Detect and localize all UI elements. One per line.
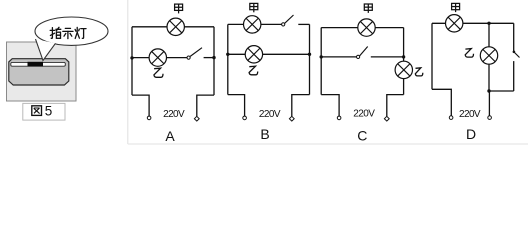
cooker body (pot): [9, 59, 69, 85]
svg-text:220V: 220V: [353, 109, 375, 120]
wire: D middle vertical: [488, 23, 490, 91]
svg-text:5: 5: [45, 104, 53, 119]
appliance photo background square: [7, 42, 77, 101]
wire: B middle branch: [228, 53, 310, 55]
glyph 示: [63, 28, 73, 38]
label 甲 (D): [452, 3, 460, 12]
junction (C right): [402, 55, 405, 58]
label 乙 (A): [154, 68, 163, 77]
indicator lamp black bar: [28, 62, 44, 67]
wire: B bottom-left lead: [228, 95, 245, 117]
wire: C right vertical: [403, 28, 405, 95]
svg-text:220V: 220V: [459, 109, 481, 120]
lamp 甲 (A): [167, 18, 184, 35]
lamp 甲 (B): [244, 16, 261, 33]
switch S (C): [357, 47, 404, 59]
wire: D bottom-left lead: [432, 89, 451, 116]
lamp 甲 (D): [446, 15, 463, 32]
terminal (B left): [243, 116, 247, 120]
terminal (A left): [147, 116, 151, 120]
callout text 指示灯 (drawn glyphs): [50, 27, 86, 38]
lamp 乙 (A): [149, 49, 166, 66]
glyph 指: [50, 27, 61, 38]
terminal (A right diamond): [194, 116, 199, 121]
wire: B top: [228, 23, 282, 25]
label 乙 (B): [249, 66, 258, 75]
wire: D right vertical upper: [513, 23, 515, 51]
wire: D left vertical: [431, 23, 433, 89]
label 乙 (C): [415, 68, 423, 76]
wire: D bottom-right connecting to middle: [489, 90, 514, 92]
wire: B left vertical: [227, 24, 229, 94]
terminal (D right): [488, 116, 492, 120]
wire: A bottom-left lead: [132, 95, 149, 116]
wire: A bottom-right lead: [197, 95, 214, 116]
svg-text:220V: 220V: [259, 109, 281, 120]
terminal (B right diamond): [289, 116, 294, 121]
svg-text:C: C: [357, 127, 367, 143]
wire: A right vertical: [213, 27, 215, 95]
junction (B left): [226, 53, 229, 56]
terminal (D left): [449, 116, 453, 120]
switch S (B): [282, 15, 310, 26]
switch S (D, vertical): [513, 51, 520, 92]
svg-text:D: D: [466, 126, 476, 142]
svg-text:A: A: [165, 128, 175, 144]
wire: A top: [132, 26, 214, 28]
cell separator vertical line: [127, 0, 129, 144]
terminal (C left): [337, 116, 341, 120]
lamp 甲 (C): [358, 19, 375, 36]
glyph 灯: [75, 27, 86, 38]
wire: D top: [432, 22, 514, 24]
lamp 乙 (D, on middle vertical): [480, 47, 497, 64]
junction (A right): [212, 56, 215, 59]
wire: C bottom-left lead: [321, 95, 339, 117]
wire: C bottom-right lead: [387, 95, 404, 117]
switch S (A): [187, 48, 214, 60]
wire: A middle branch: [132, 57, 188, 59]
label 甲 (C): [364, 4, 372, 13]
wire: C top: [321, 27, 403, 29]
cell separator horizontal line: [128, 143, 528, 145]
junction (D bottom): [487, 89, 490, 92]
junction (C left): [320, 55, 323, 58]
label 甲 (B): [250, 3, 258, 12]
svg-text:220V: 220V: [163, 109, 185, 120]
wire: B right vertical: [309, 24, 311, 94]
wire: A left vertical: [131, 27, 133, 95]
terminal (C right diamond): [384, 116, 389, 121]
junction (B right): [308, 53, 311, 56]
figure label box: [23, 103, 65, 120]
lamp 乙 (C, on right vertical): [395, 61, 412, 78]
junction (A left): [130, 56, 133, 59]
svg-text:B: B: [260, 126, 269, 142]
callout bubble ellipse: [35, 17, 108, 61]
wire: C middle branch left segment: [321, 56, 357, 58]
label 乙 (D): [465, 49, 473, 58]
lamp 乙 (B): [245, 46, 262, 63]
label 甲 (A): [175, 4, 183, 13]
wire: C left vertical: [320, 28, 322, 95]
junction (D top): [487, 22, 490, 25]
wire: B bottom-right lead: [292, 95, 310, 117]
lid seam slot: [11, 62, 66, 66]
wire: D middle stem to terminal: [488, 91, 490, 116]
figure label 图 (drawn glyph): [32, 106, 42, 116]
